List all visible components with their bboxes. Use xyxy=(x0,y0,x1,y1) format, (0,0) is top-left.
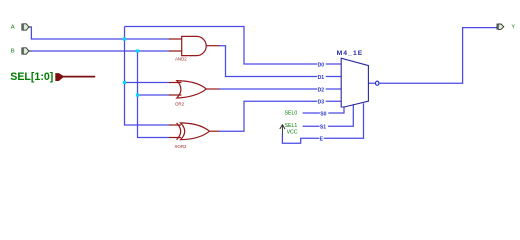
junction net B at B row xyxy=(136,49,139,52)
junction net A at OR branch xyxy=(123,81,126,84)
wire net B vertical riser to XOR bottom input xyxy=(138,51,170,138)
junction net A at A row xyxy=(123,37,126,40)
svg-text:XOR2: XOR2 xyxy=(175,144,188,149)
mux pin label D3 xyxy=(317,99,325,106)
svg-text:D0: D0 xyxy=(318,62,325,68)
AND gate U1 body xyxy=(182,36,206,55)
svg-text:AND2: AND2 xyxy=(175,57,187,62)
wire net A vertical riser to XOR top input xyxy=(125,27,170,126)
AND gate U1 input stubs xyxy=(169,39,182,51)
svg-text:M4_1E: M4_1E xyxy=(337,50,364,57)
OR gate U2 body xyxy=(177,81,207,98)
mux pin label S0 xyxy=(320,111,328,118)
input port B xyxy=(22,47,31,54)
svg-text:S0: S0 xyxy=(320,111,326,117)
input port A xyxy=(22,23,32,30)
svg-text:A: A xyxy=(11,24,15,30)
wire net A top run to mux D0 xyxy=(125,27,342,65)
svg-text:SEL[1:0]: SEL[1:0] xyxy=(10,71,53,83)
svg-text:D1: D1 xyxy=(318,75,325,81)
wire AND output to mux D1 xyxy=(219,46,341,77)
svg-text:SEL0: SEL0 xyxy=(285,111,298,117)
mux pin label O xyxy=(375,81,380,86)
svg-text:Y: Y xyxy=(512,24,516,30)
svg-text:D2: D2 xyxy=(318,87,325,93)
VCC power symbol xyxy=(280,125,285,135)
mux M4_1E body xyxy=(341,58,368,107)
wire net B branch to OR bottom input xyxy=(138,94,170,96)
XOR gate U3 extra input arc xyxy=(177,123,181,140)
svg-text:VCC: VCC xyxy=(287,129,298,135)
wire OR output to mux D2 xyxy=(219,88,341,90)
OR gate U2 output stub xyxy=(206,88,219,90)
wire net A row to AND input xyxy=(31,38,170,40)
bus terminal flag xyxy=(55,73,63,81)
mux pin label E xyxy=(319,136,323,143)
wire A pin drop xyxy=(30,27,32,39)
bus SEL[1:0] xyxy=(63,76,95,78)
wire VCC to mux E xyxy=(282,103,363,143)
AND gate U1 output stub xyxy=(206,45,219,47)
wire net B row to AND input xyxy=(31,50,170,52)
svg-text:E: E xyxy=(320,137,324,143)
wire net A branch to OR top input xyxy=(125,82,170,84)
mux pin label D2 xyxy=(317,87,325,94)
wire XOR output to mux D3 xyxy=(219,101,341,131)
wire net SEL0 to mux S0 xyxy=(303,107,344,113)
svg-text:S1: S1 xyxy=(320,125,326,131)
XOR gate U3 output stub xyxy=(210,130,220,132)
mux pin label D0 xyxy=(317,62,325,69)
output port Y xyxy=(497,24,504,30)
wire mux output O to Y pin xyxy=(368,28,496,84)
XOR gate U3 body xyxy=(181,123,210,140)
svg-text:B: B xyxy=(11,48,15,54)
svg-text:SEL1: SEL1 xyxy=(285,123,298,129)
junction net B at OR branch xyxy=(136,93,139,96)
wire net SEL1 to mux S1 xyxy=(303,104,354,126)
mux pin label D1 xyxy=(317,74,325,81)
mux pin label S1 xyxy=(320,124,328,131)
OR gate U2 input stubs xyxy=(169,83,182,96)
svg-text:D3: D3 xyxy=(318,100,325,106)
svg-text:OR2: OR2 xyxy=(175,102,185,107)
XOR gate U3 input stubs xyxy=(169,125,181,138)
